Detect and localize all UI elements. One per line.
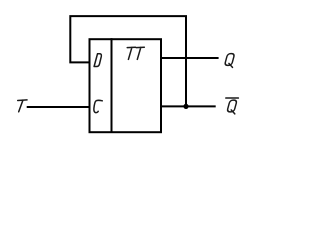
node Q label: [225, 54, 235, 68]
label TT: [127, 47, 144, 59]
pin label C: [94, 100, 102, 112]
node Qbar label: [226, 98, 239, 114]
wire: T input: [27, 106, 90, 108]
flip-flop U1 body: [90, 39, 162, 132]
wire: Qbar output: [161, 105, 216, 107]
flip-flop U1 divider: [111, 38, 113, 132]
wire: feedback Qbar to D: [70, 16, 186, 106]
node T label: [18, 100, 27, 112]
junction dot on Qbar wire: [183, 104, 188, 109]
wire: Q output: [161, 57, 219, 59]
pin label D: [94, 54, 101, 67]
